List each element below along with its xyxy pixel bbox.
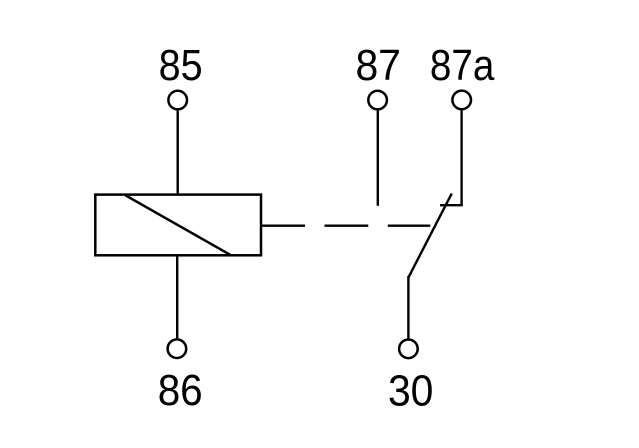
wire 87a fixed contact <box>460 110 462 205</box>
svg-text:30: 30 <box>388 366 434 415</box>
actuator link solid stub <box>262 224 306 226</box>
terminal circle 85 <box>168 91 187 110</box>
wire 85 to coil <box>176 111 178 195</box>
switch lever (movable contact from 30) <box>409 194 452 278</box>
wire 87 fixed contact <box>377 111 379 206</box>
actuator link dash 2 <box>388 224 431 226</box>
wire 86 from coil <box>176 256 178 339</box>
87a contact hook <box>440 204 463 206</box>
svg-text:87a: 87a <box>430 41 495 90</box>
relay coil box <box>95 195 261 256</box>
actuator link dash 1 <box>325 224 369 226</box>
coil diagonal <box>125 195 230 255</box>
svg-text:86: 86 <box>158 366 203 415</box>
terminal circle 87 <box>368 91 387 110</box>
svg-text:85: 85 <box>159 41 203 90</box>
svg-text:87: 87 <box>355 41 401 90</box>
terminal circle 87a <box>452 91 471 110</box>
terminal circle 30 <box>399 340 418 359</box>
wire 30 <box>407 276 409 338</box>
terminal circle 86 <box>168 339 187 358</box>
